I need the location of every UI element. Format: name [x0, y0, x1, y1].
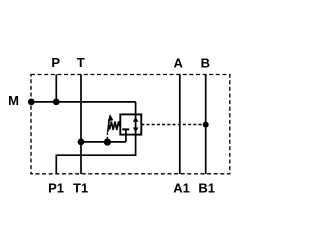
svg-text:A1: A1 — [173, 181, 190, 196]
svg-text:B1: B1 — [198, 181, 215, 196]
svg-text:M: M — [8, 93, 19, 108]
svg-text:A: A — [174, 56, 184, 71]
svg-text:T1: T1 — [73, 180, 88, 195]
svg-text:B: B — [201, 56, 210, 71]
svg-text:P1: P1 — [48, 180, 64, 195]
svg-text:P: P — [51, 55, 60, 70]
svg-text:T: T — [77, 55, 85, 70]
